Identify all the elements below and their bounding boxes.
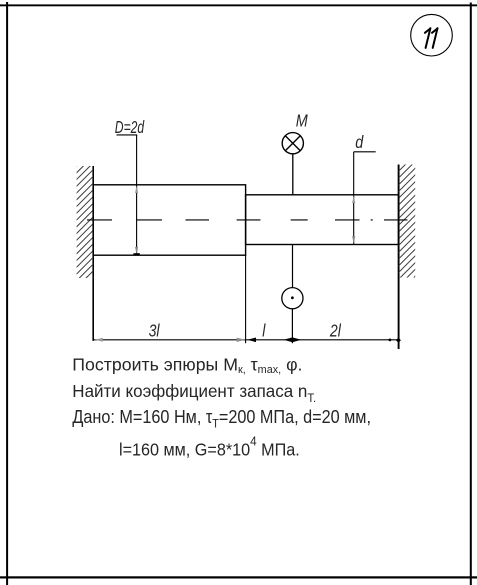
reaction symbol (circle with dot) below shaft [282, 288, 303, 309]
small shaft section d [246, 195, 399, 245]
d arrow at top generator [352, 196, 355, 204]
D=2d arrow at top generator [135, 186, 138, 194]
svg-text:l=160 мм, G=8*104 МПа.: l=160 мм, G=8*104 МПа. [119, 434, 300, 459]
D=2d arrow at bottom generator [135, 247, 138, 255]
svg-text:Найти коэффициент запаса nТ.: Найти коэффициент запаса nТ. [72, 381, 316, 405]
dim arrow left end (faint) [95, 338, 103, 342]
dimension line [93, 339, 398, 341]
left wall line [92, 166, 94, 341]
svg-text:2l: 2l [329, 321, 341, 341]
svg-text:l: l [262, 321, 265, 341]
svg-text:M: M [296, 111, 308, 131]
svg-text:3l: 3l [149, 321, 160, 341]
torque symbol M (circle with X) [282, 133, 303, 154]
large shaft section D=2d [93, 185, 245, 255]
d leader vertical [353, 152, 355, 244]
right wall line [398, 165, 400, 350]
dim right end diamond [396, 338, 401, 343]
svg-text:Дано: М=160 Нм, τТ=200 МПа, d=: Дано: М=160 Нм, τТ=200 МПа, d=20 мм, [72, 406, 371, 430]
problem number circle [411, 14, 453, 56]
wire from M symbol to shaft [292, 154, 294, 195]
D=2d leader vertical [136, 135, 138, 255]
dim arrow l left [247, 338, 256, 343]
sheet frame left border [6, 2, 8, 585]
svg-text:Построить эпюры Мк, τmax, φ.: Построить эпюры Мк, τmax, φ. [72, 354, 302, 375]
svg-text:D=2d: D=2d [115, 118, 145, 138]
D=2d arrow tick bottom [133, 253, 139, 255]
sheet frame bottom border [0, 576, 477, 578]
dim right end dot [389, 339, 392, 342]
wire dot-circle to dimension line [291, 309, 293, 343]
dim arrow 3l right (faint) [237, 338, 246, 342]
D=2d leader shelf [117, 134, 138, 136]
sheet frame top border [0, 4, 477, 6]
shaft centerline (dash-dot) [87, 219, 407, 221]
sheet frame right border [470, 3, 472, 585]
dim rhombus marker at load point [284, 337, 302, 342]
svg-text:d: d [355, 132, 364, 152]
problem number 11 [425, 28, 438, 48]
wire shaft to dot-circle [292, 245, 294, 288]
extension line at step [245, 255, 247, 343]
d arrow at bottom generator [352, 236, 355, 244]
d leader shelf [354, 151, 376, 153]
